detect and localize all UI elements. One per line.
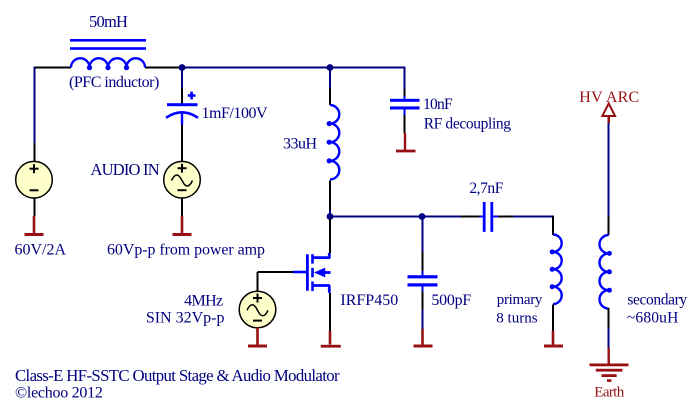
label 500pF — [431, 292, 471, 309]
wire — [608, 216, 610, 235]
wire — [257, 272, 259, 292]
wire — [608, 328, 610, 348]
ground — [544, 331, 563, 348]
wire — [34, 67, 36, 144]
wire — [422, 216, 461, 218]
ground — [396, 133, 416, 152]
wire — [422, 219, 424, 252]
svg-text:33uH: 33uH — [283, 136, 318, 153]
svg-text:500pF: 500pF — [431, 292, 471, 309]
wire — [34, 198, 36, 217]
capacitor C1 1mF/100V — [166, 92, 198, 125]
voltage source V1 60V/2A — [16, 161, 53, 198]
label secondary — [627, 292, 687, 309]
svg-text:60Vp-p from power amp: 60Vp-p from power amp — [107, 242, 265, 259]
label AUDIO IN — [91, 160, 160, 179]
wire — [513, 216, 554, 218]
wire — [552, 304, 554, 331]
wire — [329, 210, 331, 216]
inductor L2 33uH — [327, 105, 340, 179]
inductor L1 50mH — [70, 39, 146, 70]
wire — [329, 88, 331, 105]
wire — [329, 181, 331, 211]
ground — [414, 329, 433, 348]
wire — [498, 216, 513, 218]
wire — [404, 115, 406, 133]
label HV ARC — [579, 89, 639, 106]
label 4MHz — [184, 293, 223, 310]
label 60V/2A — [15, 242, 67, 259]
svg-text:1mF/100V: 1mF/100V — [202, 105, 268, 122]
label 1mF/100V — [202, 105, 268, 122]
svg-text:©lechoo 2012: ©lechoo 2012 — [15, 385, 103, 402]
label IRFP450 — [340, 292, 398, 309]
svg-text:8 turns: 8 turns — [496, 311, 537, 327]
svg-text:RF decoupling: RF decoupling — [424, 116, 512, 133]
wire — [403, 96, 405, 100]
svg-text:~680uH: ~680uH — [627, 310, 679, 327]
svg-text:(PFC inductor): (PFC inductor) — [69, 74, 159, 91]
wire — [461, 216, 480, 218]
node junction A — [179, 64, 186, 71]
wire — [493, 215, 498, 217]
label 50mH — [89, 12, 128, 31]
ground — [25, 216, 44, 236]
wire — [330, 67, 406, 69]
wire — [330, 216, 422, 218]
label title — [15, 366, 340, 385]
label 10nF — [423, 96, 453, 113]
svg-text:Earth: Earth — [594, 385, 624, 401]
HV ARC arrow — [602, 104, 615, 117]
wire — [422, 292, 424, 310]
wire — [421, 271, 423, 276]
wire — [421, 287, 423, 292]
inductor L3 primary — [550, 235, 562, 305]
svg-text:10nF: 10nF — [423, 96, 453, 113]
svg-text:secondary: secondary — [627, 292, 687, 309]
voltage source V2 AUDIO IN — [164, 161, 201, 198]
voltage source V3 4MHz — [239, 291, 276, 328]
label 8 turns — [496, 311, 537, 327]
node junction D — [419, 213, 426, 220]
node junction C — [327, 213, 334, 220]
svg-text:60V/2A: 60V/2A — [15, 242, 67, 259]
svg-text:2,7nF: 2,7nF — [469, 180, 503, 197]
wire — [608, 123, 610, 216]
wire — [608, 116, 610, 123]
wire — [181, 69, 183, 89]
wire — [403, 110, 405, 116]
wire — [404, 69, 406, 90]
svg-text:Class-E HF-SSTC Output Stage &: Class-E HF-SSTC Output Stage & Audio Mod… — [15, 366, 340, 385]
label 60Vp-p from power amp — [107, 242, 265, 259]
label PFC inductor — [69, 74, 159, 91]
wire — [608, 308, 610, 328]
wire — [181, 198, 183, 217]
svg-text:AUDIO IN: AUDIO IN — [91, 160, 160, 179]
svg-text:SIN 32Vp-p: SIN 32Vp-p — [146, 310, 225, 327]
wire — [182, 67, 330, 69]
wire — [181, 88, 183, 103]
svg-text:4MHz: 4MHz — [184, 293, 223, 310]
wire — [34, 143, 36, 162]
wire — [258, 271, 294, 273]
inductor L4 secondary — [600, 235, 612, 309]
capacitor C4 2,7nF — [483, 202, 493, 232]
label copyright — [15, 385, 103, 402]
wire — [422, 252, 424, 271]
wire — [34, 67, 72, 69]
ground — [173, 216, 192, 236]
svg-text:primary: primary — [497, 292, 543, 308]
capacitor C2 10nF — [390, 99, 420, 110]
label Earth — [594, 385, 624, 401]
label SIN 32Vp-p — [146, 310, 225, 327]
ground — [321, 331, 341, 348]
wire — [329, 219, 331, 253]
capacitor C3 500pF — [408, 275, 438, 286]
wire — [329, 293, 331, 331]
label primary — [497, 292, 543, 308]
label RF decoupling — [424, 116, 512, 133]
label 33uH — [283, 136, 318, 153]
mosfet Q1 IRFP450 — [293, 253, 331, 293]
node junction B — [327, 64, 334, 71]
label 2,7nF — [469, 180, 503, 197]
wire — [404, 89, 406, 96]
wire — [422, 309, 424, 329]
svg-text:IRFP450: IRFP450 — [340, 292, 398, 309]
ground — [248, 328, 267, 348]
label ~680uH — [627, 310, 679, 327]
svg-text:50mH: 50mH — [89, 12, 128, 31]
wire — [145, 67, 179, 69]
earth ground — [590, 348, 629, 382]
wire — [181, 125, 183, 162]
wire — [329, 69, 331, 89]
wire — [480, 215, 484, 217]
wire — [552, 217, 554, 236]
